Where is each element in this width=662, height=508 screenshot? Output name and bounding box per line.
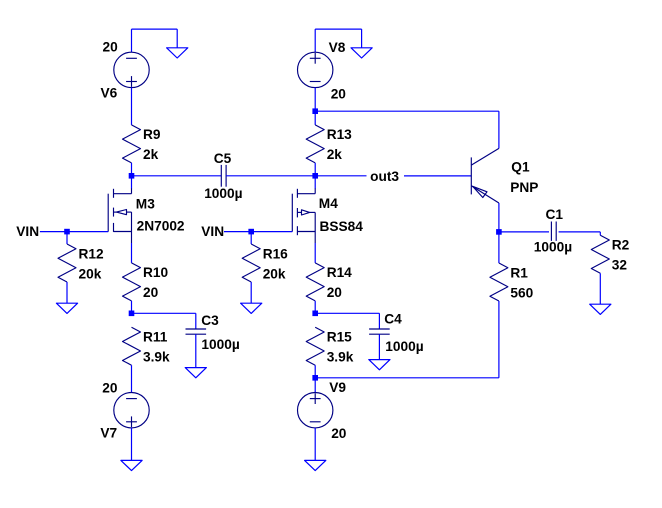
voltage source V9	[298, 393, 333, 428]
wire R11 bottom to V7	[131, 365, 133, 392]
transistor M3 (NMOS 2N7002)	[108, 176, 131, 243]
resistor R11	[123, 327, 141, 365]
svg-text:3.9k: 3.9k	[143, 350, 170, 365]
label R11	[143, 330, 168, 345]
value R15 = 3.9k	[327, 350, 354, 365]
wire down to C4 top plate	[378, 313, 380, 329]
label M4	[319, 196, 338, 211]
node VIN-left junction	[64, 229, 70, 235]
wire V6 top to bend	[131, 29, 133, 52]
capacitor C4	[369, 329, 390, 334]
wire junction down to R12	[66, 232, 68, 244]
value M4 = BSS84	[320, 219, 364, 234]
capacitor C5	[221, 165, 226, 187]
svg-text:3.9k: 3.9k	[327, 350, 354, 365]
svg-text:BSS84: BSS84	[320, 219, 364, 234]
resistor R9	[123, 125, 141, 163]
wire V8 top to bend	[314, 29, 316, 52]
transistor Q1 (PNP)	[471, 148, 499, 203]
svg-text:560: 560	[510, 285, 533, 300]
node R10/R11/C3 junction	[129, 311, 135, 317]
svg-text:R2: R2	[612, 238, 630, 253]
wire node to V9	[314, 378, 316, 393]
svg-text:20k: 20k	[79, 266, 102, 281]
svg-text:M3: M3	[136, 197, 155, 212]
label R10	[143, 265, 168, 280]
value C1 = 1000µ	[534, 240, 572, 255]
label C3	[201, 313, 219, 328]
wire bend to ground stub (V8)	[315, 28, 361, 30]
label R2	[612, 238, 630, 253]
wire node to C4	[315, 312, 379, 314]
voltage source V7	[114, 393, 149, 428]
value R14 = 20	[327, 285, 343, 300]
capacitor C1	[551, 222, 556, 241]
value C4 = 1000µ	[385, 339, 423, 354]
wire node down to R13	[314, 111, 316, 125]
transistor M4 (PMOS BSS84)	[292, 176, 315, 243]
wire stub down to ground (V8)	[361, 29, 363, 48]
label R14	[327, 265, 352, 280]
wire V7 to ground	[131, 428, 133, 461]
label Q1	[511, 159, 530, 174]
svg-text:V6: V6	[101, 86, 118, 101]
svg-text:20: 20	[331, 426, 347, 441]
wire C5 right plate to mid node	[226, 175, 315, 177]
value R9 = 2k	[143, 147, 159, 162]
svg-text:1000µ: 1000µ	[201, 337, 239, 352]
node out3 junction	[312, 173, 318, 179]
svg-text:R10: R10	[143, 265, 168, 280]
svg-text:32: 32	[612, 258, 628, 273]
value R10 = 20	[143, 285, 159, 300]
wire node to C5 left plate	[132, 175, 222, 177]
svg-text:C5: C5	[214, 151, 232, 166]
value M3 = 2N7002	[137, 218, 185, 233]
value R1 = 560	[510, 285, 533, 300]
resistor R1	[490, 263, 508, 301]
label R9	[143, 127, 161, 142]
svg-text:20: 20	[327, 285, 343, 300]
wire junction down to R16	[250, 232, 252, 244]
wire node down to R1	[498, 232, 500, 263]
label V8	[329, 40, 346, 55]
value R16 = 20k	[263, 266, 286, 281]
ground (V9)	[305, 460, 326, 470]
wire M4 source to R14	[314, 243, 316, 263]
resistor R10	[123, 263, 141, 301]
value C5 = 1000µ	[204, 186, 242, 201]
wire VIN to M3 gate	[40, 231, 108, 233]
wire node to C3	[132, 312, 196, 314]
value R2 = 32	[612, 258, 628, 273]
wire R2 bottom to ground	[599, 273, 601, 304]
label R12	[79, 246, 104, 261]
node M3 drain junction	[129, 173, 135, 179]
wire R12 to ground	[66, 282, 68, 303]
svg-text:Q1: Q1	[511, 159, 530, 174]
wire V8 bottom to node	[314, 88, 316, 112]
svg-text:R12: R12	[79, 246, 104, 261]
label C1	[546, 207, 564, 222]
wire R15 bottom to node	[314, 365, 316, 378]
ground (R2)	[590, 304, 611, 314]
svg-text:V8: V8	[329, 40, 346, 55]
wire C1 right plate to R2	[559, 231, 601, 233]
label C4	[384, 312, 402, 327]
ground (R16)	[241, 303, 262, 313]
net label VIN (middle)	[201, 224, 224, 239]
resistor R16	[242, 244, 260, 282]
svg-text:R15: R15	[327, 330, 352, 345]
svg-text:out3: out3	[370, 169, 399, 184]
svg-text:V9: V9	[329, 380, 346, 395]
svg-text:VIN: VIN	[201, 224, 224, 239]
value C3 = 1000µ	[201, 337, 239, 352]
node V8/R13/collector junction	[312, 108, 318, 114]
wire R1 bottom down	[498, 301, 500, 378]
wire R16 to ground	[250, 282, 252, 303]
svg-text:2k: 2k	[143, 147, 159, 162]
svg-text:R13: R13	[327, 127, 352, 142]
wire into R2 top	[599, 232, 601, 235]
resistor R15	[306, 327, 324, 365]
wire node to C1 left plate	[499, 231, 549, 233]
value V7 = 20	[102, 380, 118, 395]
svg-text:V7: V7	[100, 426, 117, 441]
svg-text:R1: R1	[510, 265, 528, 280]
wire stub down to ground	[176, 29, 178, 48]
svg-text:1000µ: 1000µ	[534, 240, 572, 255]
wire out3 node to label	[315, 175, 366, 177]
label C5	[214, 151, 232, 166]
svg-text:1000µ: 1000µ	[204, 186, 242, 201]
wire C4 bottom plate to ground	[378, 334, 380, 359]
wire C3 bottom plate to ground	[195, 334, 197, 367]
svg-text:R14: R14	[327, 265, 352, 280]
svg-text:20k: 20k	[263, 266, 286, 281]
ground (C3)	[185, 368, 206, 378]
svg-text:VIN: VIN	[16, 224, 39, 239]
value V8 = 20	[331, 86, 347, 101]
resistor R13	[306, 125, 324, 163]
value Q1 = PNP	[510, 180, 538, 195]
value V9 = 20	[331, 426, 347, 441]
svg-text:1000µ: 1000µ	[385, 339, 423, 354]
wire M3 source to R10	[131, 243, 133, 263]
voltage source V6	[114, 52, 149, 87]
wire rail down to Q1 collector	[498, 111, 500, 148]
label R15	[327, 330, 352, 345]
svg-text:M4: M4	[319, 196, 338, 211]
value R11 = 3.9k	[143, 350, 170, 365]
net label out3	[370, 169, 399, 184]
wire R13 bottom to out3 node	[314, 163, 316, 176]
label R16	[263, 246, 288, 261]
svg-text:20: 20	[331, 86, 347, 101]
svg-text:20: 20	[143, 285, 159, 300]
svg-text:2k: 2k	[327, 147, 343, 162]
value V6 = 20	[103, 39, 119, 54]
node V9/R15/R1 junction	[312, 375, 318, 381]
svg-text:20: 20	[102, 380, 118, 395]
wire out3 label to Q1 base	[404, 175, 471, 177]
svg-text:2N7002: 2N7002	[137, 218, 185, 233]
wire bottom rail to V9 node	[315, 377, 499, 379]
ground (top, V8)	[351, 48, 372, 58]
capacitor C3	[186, 329, 207, 334]
voltage source V8	[298, 52, 333, 87]
wire bend to ground stub	[132, 28, 178, 30]
node R14/R15/C4 junction	[312, 311, 318, 317]
label V7	[100, 426, 117, 441]
node VIN-mid junction	[248, 229, 254, 235]
svg-text:R11: R11	[143, 330, 168, 345]
ground (C4)	[369, 360, 390, 370]
label V6	[101, 86, 118, 101]
svg-text:C1: C1	[546, 207, 564, 222]
svg-text:R9: R9	[143, 127, 161, 142]
svg-text:20: 20	[103, 39, 119, 54]
value R12 = 20k	[79, 266, 102, 281]
label M3	[136, 197, 155, 212]
wire R9 bottom to node out-left	[131, 163, 133, 176]
wire R14 bottom to node	[314, 301, 316, 313]
svg-text:C4: C4	[384, 312, 402, 327]
resistor R12	[58, 244, 76, 282]
ground (R12)	[56, 303, 77, 313]
ground (V7)	[121, 460, 142, 470]
net label VIN (left)	[16, 224, 39, 239]
resistor R14	[306, 263, 324, 301]
ground (top left, V6)	[167, 48, 188, 58]
resistor R2	[591, 235, 609, 273]
wire R10 bottom to node	[131, 301, 133, 313]
wire VIN to M4 gate	[224, 231, 292, 233]
label R13	[327, 127, 352, 142]
wire V9 to ground	[314, 428, 316, 461]
value R13 = 2k	[327, 147, 343, 162]
svg-text:C3: C3	[201, 313, 219, 328]
svg-text:PNP: PNP	[510, 180, 538, 195]
svg-text:R16: R16	[263, 246, 288, 261]
label V9	[329, 380, 346, 395]
node emitter/R1/C1 junction	[496, 229, 502, 235]
label R1	[510, 265, 528, 280]
wire down to C3 top plate	[195, 313, 197, 329]
wire V8 node to collector rail	[315, 110, 499, 112]
wire Q1 emitter down	[498, 203, 500, 232]
wire V6 bottom to R9	[131, 88, 133, 125]
